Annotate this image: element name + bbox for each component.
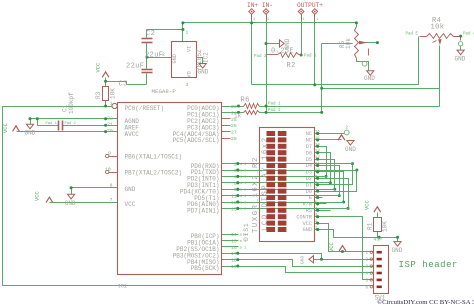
wire R4 right leg to ground: [454, 37, 461, 41]
wire output rail to R4 left leg: [252, 37, 419, 85]
svg-text:28: 28: [231, 136, 237, 142]
svg-text:AVCC: AVCC: [125, 131, 140, 138]
wire PB4 jog to ISP pin3: [222, 260, 374, 267]
wire PB3 jog to ISP pin2: [222, 254, 374, 260]
svg-text:D4: D4: [306, 163, 312, 169]
svg-text:8: 8: [110, 182, 113, 188]
wire LCD D7-D2 staircase L-bends: [315, 147, 327, 177]
LCD display DIS1 TUXGR_16X2_R2 box: [260, 128, 315, 242]
wire IC VCC pin7: [50, 202, 118, 204]
svg-text:R3: R3: [95, 91, 102, 99]
svg-text:GND: GND: [364, 75, 375, 82]
svg-text:a 1: a 1: [240, 176, 246, 180]
svg-text:10K: 10K: [382, 221, 389, 232]
wire PB0 stub: [222, 234, 239, 236]
svg-text:VCC: VCC: [303, 221, 312, 227]
svg-text:22uF: 22uF: [126, 63, 144, 71]
svg-text:PC6(/RESET): PC6(/RESET): [125, 105, 165, 112]
wire R5 top stub: [356, 23, 358, 27]
wire IN- ground stub: [267, 43, 280, 45]
IC1 XTAL1 pin stub: [109, 156, 118, 158]
svg-text:C3: C3: [119, 81, 128, 89]
wire PB1 stub: [222, 240, 239, 242]
LCD pin dots: [316, 132, 319, 135]
wire LCD VCC row to ISP pin1: [315, 224, 374, 252]
svg-text:NC: NC: [306, 131, 312, 137]
VCC symbol at IC pin7: [46, 197, 53, 202]
resistor R2 0.25E shunt: [267, 54, 278, 56]
wire PD0 row to staircase: [222, 163, 353, 165]
svg-text:GND: GND: [455, 56, 466, 63]
svg-text:GND: GND: [345, 146, 356, 153]
wire AGND pin22: [31, 118, 118, 120]
svg-text:6: 6: [234, 187, 237, 193]
svg-text:19: 19: [231, 264, 237, 270]
wire LCD backlight row15: [315, 139, 342, 141]
wire IC GND pin8: [72, 187, 118, 189]
svg-text:0.25E: 0.25E: [271, 48, 294, 56]
svg-text:VCC: VCC: [365, 200, 371, 210]
wire IN- vertical down to R7 row: [266, 15, 268, 113]
GND symbol at IC pin8: [68, 194, 75, 199]
wire VIN+ long top run to R5 top: [183, 22, 357, 24]
wire regulator GND tab to ground: [197, 58, 203, 64]
svg-text:VCC: VCC: [125, 201, 136, 208]
svg-text:7: 7: [110, 197, 113, 203]
svg-text:Pad 1: Pad 1: [268, 108, 281, 113]
svg-text:D1: D1: [306, 182, 312, 188]
svg-text:12: 12: [231, 200, 237, 206]
svg-text:a 1: a 1: [240, 169, 246, 173]
trimmer R4 10k horizontal: [427, 34, 454, 39]
svg-text:11: 11: [231, 194, 237, 200]
svg-text:D5: D5: [306, 157, 312, 163]
svg-text:DIS1: DIS1: [243, 222, 250, 241]
svg-text:GND: GND: [172, 54, 178, 63]
IC PD pin dots: [236, 162, 239, 165]
svg-text:a 1: a 1: [240, 246, 248, 250]
svg-text:10k: 10k: [345, 38, 352, 49]
wire OUT1 vertical to R2: [301, 15, 303, 55]
svg-text:VCC: VCC: [35, 191, 41, 201]
wire overlay LCD row stubs: [316, 132, 319, 135]
capacitor C3 22uF: [142, 69, 153, 71]
GND symbol LCD backlight: [347, 141, 354, 146]
connector pad IN+: [249, 9, 255, 15]
svg-text:D6: D6: [306, 150, 312, 156]
svg-text:9: 9: [108, 150, 111, 156]
svg-text:ISP header: ISP header: [399, 260, 459, 270]
svg-text:R2: R2: [287, 62, 296, 70]
svg-text:21: 21: [107, 122, 113, 128]
resistor R3 10K reset pullup: [103, 87, 109, 101]
potentiometer R5 10k vertical: [355, 27, 359, 59]
svg-text:TUXGR_16X2_R2: TUXGR_16X2_R2: [252, 156, 260, 233]
wire regulator pin2 stub: [147, 57, 172, 59]
wire LCD backlight row16: [315, 133, 345, 135]
GND symbol right of regulator: [199, 64, 206, 69]
GND symbol left on ISP pin2 row: [314, 259, 322, 261]
svg-text:Pad 1: Pad 1: [268, 102, 281, 107]
GND symbol at R4: [457, 50, 464, 55]
svg-text:D7: D7: [306, 144, 312, 150]
wire AGND ground drop: [30, 119, 32, 125]
svg-text:PD7(AIN1): PD7(AIN1): [187, 208, 219, 215]
svg-text:VCC: VCC: [96, 63, 102, 73]
svg-text:17: 17: [231, 251, 237, 257]
svg-text:R6: R6: [241, 97, 250, 105]
wire PD5 row to staircase: [222, 195, 340, 197]
svg-text:20: 20: [107, 128, 113, 134]
svg-text:IN+ IN-: IN+ IN-: [247, 2, 273, 9]
svg-text:GND: GND: [300, 255, 306, 264]
svg-text:R1: R1: [367, 222, 374, 230]
svg-text:Pad 2: Pad 2: [65, 121, 77, 126]
svg-text:a 1: a 1: [240, 195, 246, 199]
svg-text:Pad 1: Pad 1: [304, 54, 317, 59]
svg-text:100kpf: 100kpf: [68, 92, 75, 114]
connector pad IN+ stub: [251, 15, 253, 21]
svg-text:CONTR: CONTR: [296, 214, 312, 220]
svg-text:©CircuitsDIY.com CC BY-NC-SA 3: ©CircuitsDIY.com CC BY-NC-SA 3.0: [377, 299, 474, 305]
wire LCD D0 staircase L-bend: [315, 171, 357, 192]
wire AREF pin21 through C1: [38, 125, 59, 127]
svg-text:PB6(XTAL1/TOSC1): PB6(XTAL1/TOSC1): [125, 154, 183, 161]
wire C2-C3 column: [146, 44, 148, 69]
ISP pin bars: [377, 251, 382, 254]
svg-text:a 1: a 1: [240, 201, 246, 205]
resistor R7 1k: [244, 111, 260, 115]
wire LCD R/W row stub: [315, 203, 327, 205]
wire regulator VI pin vertical: [182, 23, 184, 42]
wire PC0 row to R4 wiper column: [222, 106, 244, 108]
wire C2 top stub + VI rail: [146, 30, 148, 38]
svg-text:VO: VO: [187, 71, 193, 77]
VCC symbol LCD backlight: [338, 135, 345, 140]
svg-text:22: 22: [107, 115, 113, 121]
wire OUT2 vertical: [314, 15, 316, 85]
wire AVCC pin20 from VCC arrow: [17, 131, 118, 133]
wire PD1 row to staircase: [222, 170, 357, 172]
svg-text:1: 1: [110, 101, 113, 107]
wire pullup resistor stubs: [377, 213, 379, 218]
ISP header connector SV1 box: [374, 246, 389, 294]
wire PD6 row to staircase: [222, 202, 344, 204]
wire C3 bottom stub: [146, 74, 148, 85]
connector pad IN-: [263, 9, 269, 15]
wire R5 wiper run down to PC1 row: [321, 44, 323, 113]
R5 lower pin stub: [368, 49, 370, 56]
svg-text:C2: C2: [146, 30, 155, 38]
svg-text:15: 15: [231, 238, 237, 244]
svg-text:4: 4: [234, 174, 237, 180]
svg-text:10k: 10k: [431, 24, 445, 32]
wire link R5 wiper column to R4 wiper column: [322, 88, 440, 90]
svg-text:2: 2: [234, 162, 237, 168]
svg-text:18: 18: [231, 258, 237, 264]
svg-text:16: 16: [231, 245, 237, 251]
svg-text:13: 13: [231, 206, 237, 212]
voltage regulator IC2 78L05Z box: [172, 42, 197, 78]
svg-text:PB7(XTAL2/TOSC2): PB7(XTAL2/TOSC2): [125, 170, 183, 177]
svg-text:GND: GND: [65, 200, 76, 207]
svg-text:1: 1: [186, 30, 189, 36]
svg-text:2: 2: [162, 52, 165, 58]
wire PB5 jog to ISP pin4: [222, 267, 374, 273]
GND symbol below R5: [367, 71, 374, 76]
VCC symbol at AVCC: [13, 126, 20, 131]
wire AGND-AREF vertical link: [37, 119, 39, 126]
svg-text:Pad E: Pad E: [406, 32, 419, 37]
svg-text:IC2: IC2: [203, 52, 210, 63]
resistor R1 10K pullup at ISP: [374, 218, 382, 232]
svg-text:3: 3: [234, 168, 237, 174]
capacitor C1 100kpf: [58, 121, 60, 131]
svg-text:10K: 10K: [110, 88, 117, 99]
svg-text:3: 3: [186, 82, 189, 88]
resistor R6 1k: [244, 104, 260, 109]
IC1 XTAL2 pin stub: [109, 172, 118, 174]
VCC symbol above R1: [374, 207, 381, 212]
svg-text:4SP: 4SP: [374, 237, 383, 243]
supply ring glyph LCD backlight: [344, 130, 349, 135]
capacitor C2 22uF: [142, 38, 153, 40]
wire VCC top-left junction to C3 and R3: [105, 78, 107, 87]
svg-text:Pad A: Pad A: [463, 32, 474, 37]
svg-text:VCC: VCC: [3, 123, 9, 133]
svg-text:a 1: a 1: [240, 189, 246, 193]
svg-text:VI: VI: [187, 46, 193, 52]
svg-text:22uF: 22uF: [145, 52, 163, 60]
wire R4 wiper vertical: [439, 46, 441, 107]
svg-text:Pad 2: Pad 2: [254, 54, 267, 59]
svg-text:IC1: IC1: [118, 283, 127, 289]
wire PB2 stub: [222, 246, 239, 248]
wire ground drop at ISP: [397, 238, 399, 242]
svg-text:a 1: a 1: [240, 182, 246, 186]
svg-text:GND: GND: [198, 69, 209, 76]
svg-text:PB5(SCK): PB5(SCK): [191, 265, 220, 272]
svg-text:GND: GND: [392, 247, 403, 254]
LCD pad grid: [267, 131, 276, 136]
svg-text:PC5(ADC5/SCL): PC5(ADC5/SCL): [173, 137, 220, 144]
svg-text:LCD DISPLAY 16x2: LCD DISPLAY 16x2: [262, 136, 270, 231]
VCC symbol LCD vcc row: [339, 246, 346, 251]
wire PD4 row to staircase: [222, 189, 335, 191]
wire PD7 row to staircase: [222, 208, 349, 210]
GND symbol on IN-: [280, 40, 285, 47]
svg-text:26: 26: [231, 123, 237, 129]
connector pad OUTPUT1: [298, 9, 304, 15]
wire LCD E row stub: [315, 197, 323, 199]
svg-text:10: 10: [105, 166, 111, 172]
IC1 ATmega8 box: [118, 103, 222, 275]
IC1 pin1 inversion bubble: [112, 103, 117, 108]
IC1 unused PC pin stubs: [222, 118, 231, 120]
svg-text:GND: GND: [303, 227, 312, 233]
svg-text:E: E: [309, 195, 312, 201]
wire overlay PD rows over LCD pin names: [291, 163, 353, 165]
svg-text:NC: NC: [306, 138, 312, 144]
junction dots: [104, 105, 107, 108]
wire PD2 row to staircase: [222, 176, 327, 178]
wire IN+ vertical: [251, 15, 253, 85]
wire LCD GND row to pullup rail and ISP gnd: [315, 230, 398, 238]
svg-text:VCC: VCC: [329, 242, 335, 252]
wire LCD CONTR row to ISP pin5: [315, 217, 374, 280]
svg-text:1k: 1k: [234, 113, 242, 120]
svg-text:Pad 1: Pad 1: [46, 121, 58, 126]
wire R5 wiper pin stub: [368, 42, 378, 44]
wire PC1 row: [222, 112, 244, 114]
wire reset net: pin1 to left edge, down, bottom run to ISP pin6: [3, 107, 374, 286]
wire PD3 row to staircase: [222, 182, 331, 184]
svg-text:GND: GND: [25, 130, 36, 137]
VCC symbol top-left: [102, 72, 109, 77]
connector pad OUTPUT2: [312, 9, 318, 15]
GND symbol at AGND: [26, 124, 33, 129]
svg-text:27: 27: [231, 130, 237, 136]
GND symbol below ISP rail: [394, 242, 401, 247]
svg-text:a 1: a 1: [240, 208, 246, 212]
wire R5 bottom to ground jog: [357, 59, 369, 71]
svg-text:OUTPUT+: OUTPUT+: [297, 2, 323, 9]
svg-text:MEGA8-P: MEGA8-P: [152, 88, 177, 95]
svg-text:5: 5: [234, 181, 237, 187]
svg-text:23: 23: [231, 104, 237, 110]
ISP pin hooks: [370, 251, 372, 253]
wire LCD RS row stub: [315, 210, 331, 212]
svg-text:a 1: a 1: [240, 163, 246, 167]
svg-text:GND: GND: [125, 186, 136, 193]
svg-text:14: 14: [231, 232, 237, 238]
wire LCD D1 staircase L-bend: [315, 164, 353, 185]
